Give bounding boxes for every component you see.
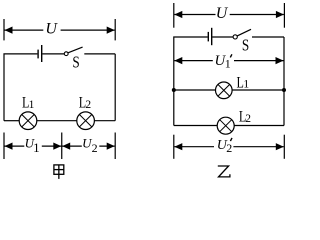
svg-text:1: 1 — [243, 77, 249, 91]
svg-text:S: S — [72, 54, 79, 72]
svg-text:1: 1 — [33, 140, 40, 155]
svg-text:1: 1 — [29, 99, 35, 111]
svg-text:2: 2 — [226, 141, 232, 155]
svg-text:2: 2 — [85, 99, 91, 111]
svg-text:U: U — [216, 5, 229, 22]
svg-text:S: S — [242, 37, 249, 55]
svg-text:1: 1 — [225, 56, 231, 70]
svg-text:U: U — [45, 21, 58, 38]
svg-text:2: 2 — [245, 113, 251, 125]
svg-text:2: 2 — [92, 141, 98, 155]
